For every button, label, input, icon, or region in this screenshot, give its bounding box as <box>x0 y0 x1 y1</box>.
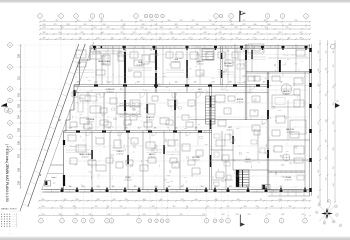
svg-text:371: 371 <box>189 37 192 39</box>
svg-text:332: 332 <box>148 32 151 34</box>
svg-text:415: 415 <box>326 51 328 54</box>
svg-text:212: 212 <box>326 120 328 123</box>
svg-text:12.45 m2: 12.45 m2 <box>124 179 131 181</box>
svg-text:1: 1 <box>146 16 147 18</box>
svg-text:1: 1 <box>282 16 283 18</box>
svg-text:443: 443 <box>195 199 198 201</box>
svg-text:252: 252 <box>17 92 20 97</box>
svg-text:d: d <box>336 206 337 208</box>
svg-text:1: 1 <box>306 16 307 18</box>
svg-text:1: 1 <box>231 16 232 18</box>
svg-text:1: 1 <box>156 16 157 18</box>
svg-text:186: 186 <box>196 24 199 26</box>
svg-text:375: 375 <box>54 24 57 26</box>
svg-text:388: 388 <box>264 20 267 22</box>
svg-text:150: 150 <box>203 27 206 29</box>
svg-text:187: 187 <box>181 186 184 188</box>
svg-text:12.45 m2: 12.45 m2 <box>282 93 289 95</box>
svg-text:153: 153 <box>229 20 232 22</box>
svg-text:1: 1 <box>40 16 41 18</box>
svg-text:12.45 m2: 12.45 m2 <box>172 61 179 63</box>
svg-text:c: c <box>6 110 7 112</box>
svg-text:449: 449 <box>204 32 207 34</box>
svg-text:195: 195 <box>248 214 251 216</box>
svg-text:2: 2 <box>266 221 267 223</box>
svg-text:284: 284 <box>274 37 277 39</box>
svg-text:142: 142 <box>333 184 335 187</box>
svg-text:204: 204 <box>318 148 320 151</box>
svg-text:12.45 m2: 12.45 m2 <box>100 63 107 65</box>
svg-text:256: 256 <box>17 140 20 145</box>
svg-text:398: 398 <box>59 214 62 216</box>
svg-text:133: 133 <box>143 214 146 216</box>
svg-text:2: 2 <box>206 221 207 223</box>
svg-text:1: 1 <box>61 16 62 18</box>
svg-text:131: 131 <box>159 37 162 39</box>
svg-text:12.45 m2: 12.45 m2 <box>106 91 113 93</box>
svg-text:190: 190 <box>134 186 137 188</box>
svg-text:253: 253 <box>181 199 184 201</box>
svg-text:354: 354 <box>236 214 239 216</box>
svg-text:210: 210 <box>212 82 215 84</box>
svg-text:2: 2 <box>41 221 42 223</box>
svg-text:264: 264 <box>59 32 62 34</box>
svg-text:b: b <box>316 212 317 214</box>
svg-text:261: 261 <box>89 128 92 130</box>
svg-text:167: 167 <box>288 37 291 39</box>
svg-text:243: 243 <box>141 27 144 29</box>
svg-text:254: 254 <box>17 114 20 119</box>
svg-text:290: 290 <box>141 37 144 39</box>
svg-text:177: 177 <box>244 82 247 84</box>
svg-text:382: 382 <box>175 24 178 26</box>
svg-text:191: 191 <box>263 82 266 84</box>
svg-text:319: 319 <box>172 37 175 39</box>
svg-text:447: 447 <box>107 27 110 29</box>
svg-text:383: 383 <box>43 32 46 34</box>
svg-text:326: 326 <box>112 186 115 188</box>
svg-text:367: 367 <box>318 170 320 173</box>
svg-text:436: 436 <box>237 199 240 201</box>
svg-text:275: 275 <box>79 27 82 29</box>
svg-text:166: 166 <box>289 206 292 208</box>
svg-text:12.45 m2: 12.45 m2 <box>86 121 93 123</box>
svg-text:1: 1 <box>151 16 152 18</box>
svg-text:12.45 m2: 12.45 m2 <box>284 179 291 181</box>
svg-text:451: 451 <box>236 37 239 39</box>
svg-text:164: 164 <box>125 199 128 201</box>
svg-text:404: 404 <box>271 206 274 208</box>
svg-text:1: 1 <box>92 16 93 18</box>
svg-text:438: 438 <box>239 32 242 34</box>
svg-text:7.2: 7.2 <box>53 183 56 185</box>
svg-text:389: 389 <box>61 27 64 29</box>
svg-text:364: 364 <box>89 20 92 22</box>
svg-text:293: 293 <box>42 206 45 208</box>
svg-text:217: 217 <box>94 27 97 29</box>
svg-text:g: g <box>324 223 325 225</box>
svg-text:119: 119 <box>121 20 124 22</box>
svg-text:273: 273 <box>253 37 256 39</box>
svg-text:2: 2 <box>83 221 84 223</box>
svg-text:141: 141 <box>175 128 178 130</box>
svg-text:102: 102 <box>246 186 249 188</box>
svg-text:255: 255 <box>43 20 46 22</box>
svg-text:293: 293 <box>295 20 298 22</box>
svg-text:12.45 m2: 12.45 m2 <box>146 119 153 121</box>
svg-text:344: 344 <box>101 32 104 34</box>
svg-text:117: 117 <box>260 199 263 201</box>
svg-text:129: 129 <box>286 27 289 29</box>
svg-text:210: 210 <box>97 186 100 188</box>
svg-text:264: 264 <box>152 206 155 208</box>
svg-text:144: 144 <box>69 128 72 130</box>
svg-text:363: 363 <box>143 199 146 201</box>
svg-text:317: 317 <box>215 186 218 188</box>
svg-text:265: 265 <box>235 27 238 29</box>
svg-text:12.45 m2: 12.45 m2 <box>226 129 233 131</box>
svg-text:12.45 m2: 12.45 m2 <box>224 65 231 67</box>
svg-text:12.45 m2: 12.45 m2 <box>196 63 203 65</box>
svg-text:328: 328 <box>108 214 111 216</box>
svg-text:277: 277 <box>318 106 320 109</box>
svg-text:1: 1 <box>101 16 102 18</box>
svg-text:454: 454 <box>231 24 234 26</box>
svg-text:371: 371 <box>155 82 158 84</box>
svg-text:2: 2 <box>92 221 93 223</box>
svg-text:371: 371 <box>221 37 224 39</box>
svg-text:110: 110 <box>265 27 268 29</box>
svg-text:343: 343 <box>160 27 163 29</box>
svg-text:206: 206 <box>326 140 328 143</box>
svg-text:404: 404 <box>244 206 247 208</box>
svg-text:439: 439 <box>142 24 145 26</box>
svg-text:173: 173 <box>229 186 232 188</box>
svg-text:116: 116 <box>173 206 176 208</box>
svg-text:120: 120 <box>209 20 212 22</box>
svg-text:2: 2 <box>162 221 163 223</box>
svg-text:367: 367 <box>280 186 283 188</box>
svg-text:265: 265 <box>180 214 183 216</box>
svg-text:319: 319 <box>176 27 179 29</box>
svg-text:1: 1 <box>216 16 217 18</box>
svg-text:323: 323 <box>121 32 124 34</box>
svg-text:2: 2 <box>221 221 222 223</box>
svg-text:419: 419 <box>318 69 320 72</box>
svg-text:2: 2 <box>111 221 112 223</box>
svg-text:257: 257 <box>17 153 20 158</box>
svg-text:295: 295 <box>95 206 98 208</box>
svg-text:222: 222 <box>333 86 335 89</box>
svg-text:250: 250 <box>43 27 46 29</box>
svg-text:1: 1 <box>76 16 77 18</box>
svg-text:336: 336 <box>69 186 72 188</box>
svg-text:213: 213 <box>180 20 183 22</box>
svg-text:137: 137 <box>133 32 136 34</box>
svg-text:131: 131 <box>121 27 124 29</box>
svg-text:444: 444 <box>222 214 225 216</box>
svg-text:385: 385 <box>275 20 278 22</box>
svg-text:326: 326 <box>43 37 46 39</box>
svg-text:385: 385 <box>125 128 128 130</box>
svg-text:430: 430 <box>170 32 173 34</box>
svg-text:134: 134 <box>151 20 154 22</box>
svg-text:156: 156 <box>168 186 171 188</box>
svg-text:238: 238 <box>67 24 70 26</box>
svg-text:kapici: kapici <box>52 177 57 179</box>
svg-text:337: 337 <box>127 214 130 216</box>
svg-text:1: 1 <box>267 16 268 18</box>
svg-text:145: 145 <box>175 82 178 84</box>
svg-text:176: 176 <box>59 37 62 39</box>
svg-text:355: 355 <box>326 157 328 160</box>
svg-text:268: 268 <box>265 186 268 188</box>
svg-text:150: 150 <box>103 24 106 26</box>
svg-text:163: 163 <box>84 24 87 26</box>
svg-text:103: 103 <box>302 214 305 216</box>
svg-text:306: 306 <box>77 82 80 84</box>
svg-text:s: s <box>340 225 341 227</box>
svg-text:2: 2 <box>150 221 151 223</box>
svg-text:2: 2 <box>305 221 306 223</box>
svg-text:277: 277 <box>101 20 104 22</box>
svg-text:MAHAL LİSTESİ: MAHAL LİSTESİ <box>1 207 17 210</box>
svg-text:406: 406 <box>254 24 257 26</box>
svg-text:180: 180 <box>300 37 303 39</box>
svg-text:259: 259 <box>17 180 20 185</box>
svg-text:347: 347 <box>318 196 320 199</box>
svg-text:202: 202 <box>95 82 98 84</box>
svg-text:298: 298 <box>229 82 232 84</box>
svg-text:344: 344 <box>268 24 271 26</box>
svg-text:1: 1 <box>136 16 137 18</box>
svg-text:399: 399 <box>333 103 335 106</box>
svg-text:247: 247 <box>123 24 126 26</box>
svg-text:190: 190 <box>155 186 158 188</box>
svg-text:12.45 m2: 12.45 m2 <box>192 159 199 161</box>
svg-text:438: 438 <box>279 199 282 201</box>
svg-text:378: 378 <box>243 24 246 26</box>
svg-text:12.45 m2: 12.45 m2 <box>116 153 123 155</box>
svg-text:2: 2 <box>167 221 168 223</box>
svg-text:131: 131 <box>333 167 335 170</box>
svg-text:268: 268 <box>333 148 335 151</box>
svg-text:203: 203 <box>43 24 46 26</box>
svg-text:412: 412 <box>243 20 246 22</box>
svg-text:304: 304 <box>168 20 171 22</box>
svg-text:121: 121 <box>182 32 185 34</box>
svg-text:421: 421 <box>219 32 222 34</box>
svg-text:199: 199 <box>140 20 143 22</box>
svg-text:340: 340 <box>248 27 251 29</box>
svg-text:332: 332 <box>76 214 79 216</box>
svg-text:272: 272 <box>318 122 320 125</box>
svg-text:139: 139 <box>212 24 215 26</box>
svg-text:258: 258 <box>17 167 20 172</box>
svg-text:121: 121 <box>108 128 111 130</box>
svg-text:2: 2 <box>156 221 157 223</box>
svg-text:219: 219 <box>42 214 45 216</box>
svg-text:149: 149 <box>79 37 82 39</box>
svg-text:208: 208 <box>42 199 45 201</box>
svg-text:223: 223 <box>318 84 320 87</box>
svg-text:183: 183 <box>97 199 100 201</box>
svg-text:142: 142 <box>280 82 283 84</box>
svg-text:167: 167 <box>207 206 210 208</box>
svg-text:149: 149 <box>89 214 92 216</box>
svg-text:225: 225 <box>203 214 206 216</box>
svg-text:12.45 m2: 12.45 m2 <box>244 161 251 163</box>
svg-text:292: 292 <box>56 20 59 22</box>
svg-text:2: 2 <box>281 221 282 223</box>
svg-text:234: 234 <box>113 199 116 201</box>
svg-text:269: 269 <box>81 32 84 34</box>
svg-text:443: 443 <box>282 214 285 216</box>
svg-text:160: 160 <box>204 37 207 39</box>
svg-text:235: 235 <box>257 32 260 34</box>
svg-text:196: 196 <box>120 206 123 208</box>
svg-text:142: 142 <box>157 214 160 216</box>
svg-text:253: 253 <box>17 103 20 108</box>
svg-text:2: 2 <box>215 221 216 223</box>
svg-text:216: 216 <box>124 37 127 39</box>
svg-text:233: 233 <box>333 65 335 68</box>
svg-text:272: 272 <box>326 178 328 181</box>
svg-text:12.45 m2: 12.45 m2 <box>81 156 88 158</box>
svg-text:275: 275 <box>268 214 271 216</box>
svg-text:304: 304 <box>222 27 225 29</box>
svg-text:251: 251 <box>17 75 20 80</box>
svg-text:12.45 m2: 12.45 m2 <box>236 101 243 103</box>
svg-text:228: 228 <box>137 82 140 84</box>
svg-text:90: 90 <box>186 206 188 208</box>
svg-text:267: 267 <box>300 32 303 34</box>
svg-text:314: 314 <box>201 186 204 188</box>
svg-text:401: 401 <box>191 27 194 29</box>
svg-text:2: 2 <box>107 221 108 223</box>
svg-text:2: 2 <box>139 221 140 223</box>
svg-text:287: 287 <box>279 32 282 34</box>
svg-text:338: 338 <box>76 199 79 201</box>
svg-text:360: 360 <box>318 51 320 54</box>
svg-text:120: 120 <box>97 37 100 39</box>
svg-text:168: 168 <box>124 82 127 84</box>
svg-text:126: 126 <box>256 206 259 208</box>
svg-text:317: 317 <box>138 128 141 130</box>
svg-text:2: 2 <box>62 221 63 223</box>
svg-text:2: 2 <box>228 221 229 223</box>
svg-text:1: 1 <box>162 16 163 18</box>
svg-text:| + 2.50 kotu| ZEMİN KAT PLAN: | + 2.50 kotu| ZEMİN KAT PLANI ö 1:50 <box>5 144 10 202</box>
svg-text:318: 318 <box>333 122 335 125</box>
svg-text:403: 403 <box>326 68 328 71</box>
svg-text:372: 372 <box>192 20 195 22</box>
svg-text:365: 365 <box>195 128 198 130</box>
svg-text:114: 114 <box>77 20 80 22</box>
svg-text:209: 209 <box>64 199 67 201</box>
svg-text:1: 1 <box>221 16 222 18</box>
svg-text:189: 189 <box>326 94 328 97</box>
svg-text:283: 283 <box>82 186 85 188</box>
svg-text:142: 142 <box>155 24 158 26</box>
svg-text:217: 217 <box>109 82 112 84</box>
svg-text:12.45 m2: 12.45 m2 <box>196 91 203 93</box>
svg-text:2: 2 <box>75 221 76 223</box>
svg-text:362: 362 <box>289 24 292 26</box>
svg-text:250: 250 <box>17 53 20 58</box>
svg-text:202: 202 <box>194 82 197 84</box>
svg-text:255: 255 <box>17 127 20 132</box>
svg-text:237: 237 <box>111 37 114 39</box>
svg-text:285: 285 <box>154 128 157 130</box>
svg-text:104: 104 <box>333 51 335 54</box>
